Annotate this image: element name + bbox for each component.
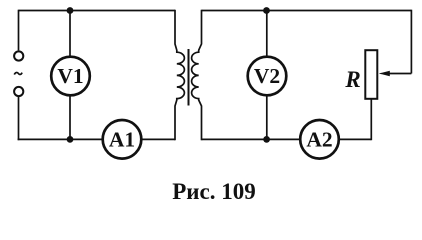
node: bottom junction of V1 branch — [67, 136, 74, 143]
wire: right circuit bottom wire — [202, 138, 372, 140]
node: bottom junction of V2 branch — [263, 136, 270, 143]
voltmeter V1 — [51, 57, 90, 96]
ammeter A1 — [103, 120, 142, 159]
wire: left circuit top wire — [19, 10, 176, 12]
voltmeter V2 — [248, 57, 287, 96]
svg-text:Рис. 109: Рис. 109 — [172, 179, 256, 204]
wire: left wire upper segment to AC terminal — [18, 10, 20, 51]
wire: rheostat bottom lead — [370, 100, 372, 141]
rheostat R body — [365, 50, 377, 99]
AC source terminal (lower) — [14, 87, 23, 96]
svg-text:V2: V2 — [254, 64, 280, 88]
wire: left wire lower segment from AC terminal — [18, 97, 20, 140]
svg-text:V1: V1 — [57, 64, 83, 88]
wire: V2 branch vertical wire — [266, 11, 268, 140]
ammeter A2 — [300, 120, 339, 159]
node: top junction of V1 branch — [67, 7, 74, 14]
wire: left circuit bottom wire — [18, 138, 175, 140]
wire: V1 branch vertical wire — [69, 11, 71, 140]
AC source terminal (upper) — [14, 51, 23, 60]
wire: right circuit top wire — [202, 10, 412, 12]
svg-text:A2: A2 — [306, 128, 332, 152]
node: top junction of V2 branch — [263, 7, 270, 14]
transformer primary winding (left coil, lead from left loop) — [175, 10, 184, 141]
svg-text:R: R — [344, 67, 360, 92]
transformer core — [188, 49, 190, 106]
transformer secondary winding (right coil, lead to right loop) — [192, 10, 202, 141]
rheostat R wiper arrow — [379, 71, 412, 77]
AC source tilde symbol — [14, 73, 22, 75]
wire: right circuit right-side wire down to wiper — [410, 10, 412, 74]
svg-text:A1: A1 — [109, 128, 135, 152]
